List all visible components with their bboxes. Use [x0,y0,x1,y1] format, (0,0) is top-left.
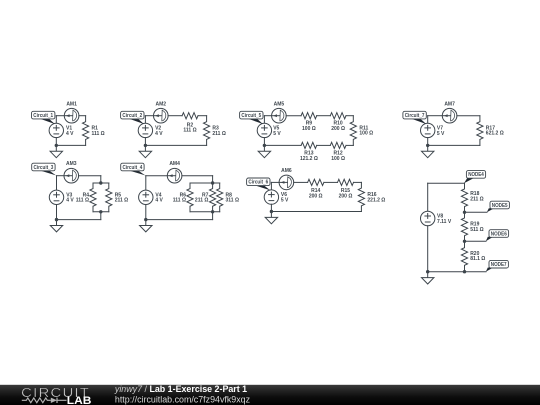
svg-text:NODE4: NODE4 [468,172,484,178]
junction C2 ground node [144,144,147,147]
svg-text:Circuit_2: Circuit_2 [122,113,142,119]
resistor R3 [204,116,210,146]
logo diode [51,398,57,403]
resistor R7 [210,183,216,212]
junction C1 ground node [55,144,58,147]
svg-text:7.11 V: 7.11 V [437,219,452,225]
wire bottom C2 [145,144,206,146]
junction C7 ground node [426,144,429,147]
ground V8 [422,272,434,284]
resistor R13 [301,142,317,148]
svg-text:NODE6: NODE6 [491,231,507,237]
svg-text:211 Ω: 211 Ω [470,197,483,203]
logo schematic squiggle: wire-resistor-diode [22,398,51,403]
svg-text:Circuit_7: Circuit_7 [405,113,425,119]
wire to NODE5 flag [465,211,488,213]
wire V6 bottom [270,204,272,211]
wire bottom C3 [57,219,101,221]
svg-text:621.2 Ω: 621.2 Ω [486,131,504,137]
ground C5 [258,145,270,157]
voltage source V7 [421,123,435,137]
resistor R9 [301,113,317,119]
wire bottom V8 circuit [428,271,465,273]
wire AM3 to feed [79,175,101,177]
wire V1 bottom [55,138,57,146]
svg-text:Circuit_1: Circuit_1 [33,113,53,119]
svg-text:5 V: 5 V [437,131,445,137]
ammeter AM6 [279,175,294,190]
svg-text:221.2 Ω: 221.2 Ω [367,197,385,203]
voltage source V1 [49,123,63,137]
resistor R10 [330,113,346,119]
junction V8 ground node [426,270,429,273]
voltage source V8 [421,211,435,225]
wire feed down C4 [212,176,214,183]
wire V7 bottom [427,138,429,146]
wire to AM3 [57,175,65,177]
wire V4 top [145,176,147,190]
wire to NODE7 flag [465,271,487,273]
node flag NODE4 [464,171,486,184]
svg-text:5 V: 5 V [281,197,289,203]
svg-text:NODE5: NODE5 [492,203,508,209]
svg-text:200 Ω: 200 Ω [339,194,353,200]
junction NODE7 [463,270,466,273]
svg-text:Circuit_4: Circuit_4 [123,165,143,171]
wire bottom C7 [428,144,480,146]
wire R14 to R15 [324,181,338,183]
wire bottom C4 [146,219,213,221]
resistor R15 [338,179,354,185]
ammeter AM1 [64,108,79,123]
wire R2 to corner [198,115,207,117]
wire feed down 2 C3 [100,212,102,220]
ammeter AM3 [64,168,79,183]
wire to AM1 [56,115,64,117]
svg-text:200 Ω: 200 Ω [331,126,345,132]
node flag Circuit_2 [121,111,144,124]
svg-text:AM5: AM5 [274,101,285,107]
resistor R5 [106,183,112,212]
junction NODE6 [463,240,466,243]
node flag Circuit_4 [121,163,146,175]
junction C5 ground node [263,144,266,147]
ground C4 [140,220,152,232]
junction C6 ground node [270,210,273,213]
resistor R6 [187,183,193,212]
wire bottom bus C4 [190,211,220,213]
svg-text:AM3: AM3 [66,161,77,167]
wire bottom C1 [56,144,85,146]
wire V7 top [427,116,429,124]
wire R13 to R12 [317,144,331,146]
resistor R16 [358,182,364,211]
node flag Circuit_1 [32,111,55,124]
wire top bus C4 [190,182,220,184]
svg-text:4 V: 4 V [155,198,163,204]
svg-text:Circuit_3: Circuit_3 [34,165,54,171]
svg-text:200 Ω: 200 Ω [309,194,323,200]
svg-text:111 Ω: 111 Ω [173,198,186,204]
wire V5 top [263,116,265,124]
ground C3 [50,220,62,232]
svg-text:111 Ω: 111 Ω [183,128,196,134]
wire R12 to corner [346,144,353,146]
ammeter AM4 [167,168,182,183]
wire V3 top [56,176,58,190]
ground C2 [139,145,151,157]
wire to AM7 [428,115,443,117]
ammeter AM2 [154,108,169,123]
svg-text:81.1 Ω: 81.1 Ω [470,256,485,262]
wire bottom bus C3 [93,211,109,213]
wire feed down 2 C4 [212,212,214,220]
svg-text:4 V: 4 V [66,131,74,137]
svg-text:Circuit_6: Circuit_6 [248,180,268,186]
wire to AM4 [146,175,168,177]
wire V5 bottom [263,138,265,146]
wire R10 to corner [346,115,353,117]
wire V2 bottom [144,138,146,146]
wire V8 left bottom [427,226,429,272]
wire bottom to R13 [264,144,301,146]
svg-text:121.2 Ω: 121.2 Ω [300,156,318,162]
wire to NODE6 flag [465,240,487,242]
wire AM7 to corner [457,115,480,117]
wire V4 bottom [145,205,147,220]
svg-text:211 Ω: 211 Ω [195,198,208,204]
wire V2 top [144,116,146,124]
resistor R19 [461,212,467,241]
wire to AM2 [145,115,153,117]
resistor R18 [461,183,467,212]
svg-text:111 Ω: 111 Ω [76,198,89,204]
wire to AM6 [271,181,279,183]
svg-text:4 V: 4 V [155,131,163,137]
svg-text:NODE7: NODE7 [491,262,507,268]
svg-text:yinwy7 / Lab 1-Exercise 2-Part: yinwy7 / Lab 1-Exercise 2-Part 1 [114,384,247,394]
wire top V8 circuit [428,182,465,184]
wire AM2 to R2 [168,115,182,117]
junction C4 ground node [144,218,147,221]
junction C4 bottom bus [211,210,214,213]
svg-text:100 Ω: 100 Ω [359,131,373,137]
voltage source V3 [49,190,63,204]
svg-text:http://circuitlab.com/c7fz94vf: http://circuitlab.com/c7fz94vfk9xqz [115,395,250,405]
svg-text:LAB: LAB [67,395,92,405]
junction C3 top bus [99,181,102,184]
junction C4 top bus [211,181,214,184]
node flag Circuit_5 [240,111,263,124]
ammeter AM7 [442,108,457,123]
resistor R17 [477,116,483,146]
voltage source V2 [138,123,152,137]
resistor R4 [90,183,96,212]
svg-text:AM2: AM2 [156,101,167,107]
wire top bus C3 [93,182,109,184]
wire AM5 to R9 [286,115,301,117]
resistor R2 [182,113,198,119]
voltage source V4 [139,190,153,204]
node flag Circuit_3 [32,163,56,175]
ground C7 [422,145,434,157]
resistor R8 [217,183,223,212]
svg-text:211 Ω: 211 Ω [212,131,225,137]
svg-text:311 Ω: 311 Ω [226,198,239,204]
ground C1 [50,145,62,157]
junction C3 bottom bus [99,210,102,213]
resistor R12 [330,142,346,148]
resistor R14 [308,179,324,185]
svg-text:5 V: 5 V [273,131,281,137]
ground C6 [265,212,277,224]
wire V8 left top [427,183,429,211]
wire AM6 to R14 [294,181,308,183]
wire to AM5 [264,115,271,117]
wire R9 to R10 [317,115,331,117]
svg-text:AM4: AM4 [169,161,180,167]
wire V3 bottom [56,205,58,220]
voltage source V5 [257,123,271,137]
node flag NODE6 [486,230,509,242]
wire bottom C6 [271,211,361,213]
svg-text:211 Ω: 211 Ω [115,198,128,204]
svg-text:Circuit_5: Circuit_5 [241,113,261,119]
wire feed down C3 [100,176,102,183]
svg-text:511 Ω: 511 Ω [470,227,483,233]
wire AM1 to R1 [79,115,86,117]
wire AM4 to corner [182,175,213,177]
junction NODE5 [463,211,466,214]
node flag NODE7 [486,260,509,271]
svg-text:AM7: AM7 [444,101,455,107]
wire R15 to corner [354,181,362,183]
wire V6 top [270,182,272,190]
resistor R20 [461,241,467,271]
ammeter AM5 [272,108,287,123]
node flag Circuit_7 [403,111,426,124]
junction C3 ground node [55,218,58,221]
svg-text:AM1: AM1 [66,101,77,107]
svg-text:4 V: 4 V [66,198,74,204]
svg-text:111 Ω: 111 Ω [92,131,105,137]
node flag Circuit_6 [247,178,271,190]
node flag NODE5 [487,201,510,212]
svg-text:100 Ω: 100 Ω [302,126,316,132]
resistor R1 [83,116,89,146]
svg-text:100 Ω: 100 Ω [331,156,345,162]
resistor R11 [350,116,356,146]
svg-text:AM6: AM6 [281,168,292,174]
wire V1 top [55,116,57,124]
voltage source V6 [264,190,278,204]
